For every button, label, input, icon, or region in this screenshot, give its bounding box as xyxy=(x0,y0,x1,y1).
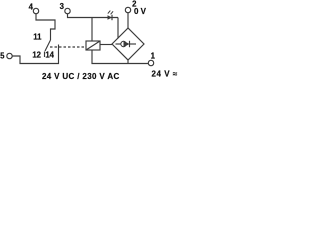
terminal 5 circle xyxy=(7,53,12,58)
relay coil box xyxy=(86,41,100,50)
wire rectifier bottom to rail xyxy=(127,60,129,64)
svg-text:3: 3 xyxy=(60,2,65,11)
background xyxy=(0,0,180,83)
wire coil bottom to output rail and terminal 1 xyxy=(92,50,148,64)
terminal 3 circle xyxy=(65,8,70,13)
wire terminal 3 to LED rail xyxy=(68,14,119,18)
bridge rectifier diamond xyxy=(112,28,144,60)
svg-text:11: 11 xyxy=(33,32,42,41)
wire NO contact 14 down and left to terminal 5 xyxy=(12,45,58,64)
wire terminal 2 to rectifier top corner xyxy=(127,13,129,28)
mechanical linkage dashed xyxy=(50,46,86,48)
svg-text:24 V ≈: 24 V ≈ xyxy=(152,69,178,78)
svg-text:12: 12 xyxy=(32,50,41,59)
diode inside rectifier xyxy=(116,43,122,45)
contact movable arm xyxy=(45,40,51,51)
terminal 2 circle xyxy=(125,7,130,12)
coil box diagonal xyxy=(86,41,100,50)
wire coil box to rectifier left corner xyxy=(100,44,113,46)
svg-text:1: 1 xyxy=(151,51,156,60)
wire terminal 4 to contact common 11 xyxy=(36,14,55,40)
wire LED rail down to rectifier left corner xyxy=(117,18,119,39)
wire T-junction down to coil top xyxy=(91,18,93,42)
LED emission arrows xyxy=(108,11,111,14)
terminal 4 circle xyxy=(33,8,38,13)
contact NC stub 12 xyxy=(44,52,46,58)
terminal 1 circle xyxy=(148,60,153,65)
svg-text:24 V UC / 230 V AC: 24 V UC / 230 V AC xyxy=(42,72,120,81)
svg-text:14: 14 xyxy=(45,50,54,59)
svg-text:0 V: 0 V xyxy=(134,7,147,16)
svg-text:5: 5 xyxy=(0,51,5,60)
LED indicator xyxy=(108,15,113,20)
